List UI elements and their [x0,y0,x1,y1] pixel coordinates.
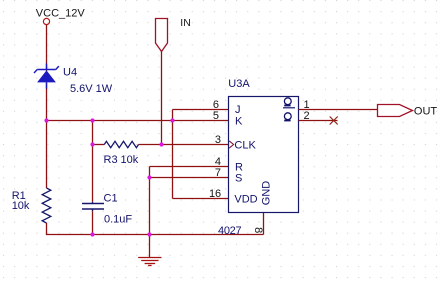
svg-text:OUT: OUT [414,105,438,117]
wire Q-bar pin 2 [299,120,338,122]
wire C1 to rail [92,211,94,234]
svg-text:GND: GND [260,181,272,206]
overbar of Q-bar [283,107,295,109]
capacitor C1 [82,202,104,212]
svg-text:CLK: CLK [234,139,256,151]
svg-text:8: 8 [252,227,264,233]
wire R3 right lead [139,144,162,146]
wire IN vertical [161,52,163,145]
svg-text:VDD: VDD [234,194,257,206]
resistor R3 [104,141,138,147]
svg-text:U3A: U3A [228,78,250,90]
svg-text:5: 5 [213,110,219,122]
power symbol VCC_12V circle [43,18,49,24]
junction R-S tie [147,175,151,179]
svg-text:4027: 4027 [218,225,241,237]
wire J-K-VDD vertical [172,110,174,199]
svg-text:7: 7 [215,167,221,179]
wire ground rail [46,234,264,236]
wire node A down to R1 [46,121,48,189]
wire VDD pin 16 [173,198,229,200]
svg-text:3: 3 [215,134,221,146]
svg-text:5.6V 1W: 5.6V 1W [70,83,113,95]
svg-text:K: K [235,115,243,127]
clock marker [229,141,233,148]
svg-text:J: J [235,104,241,116]
no-connect X on pin 2 [330,117,338,125]
junction ground rail [147,232,151,236]
zener diode U4 symbol [34,64,59,89]
svg-text:IN: IN [180,17,191,29]
wire Q pin 1 to OUT [299,109,378,111]
svg-text:10k: 10k [121,154,139,166]
port IN [156,19,168,52]
wire R3 left lead [93,144,105,146]
svg-text:S: S [235,173,242,185]
pin name Q-bar rotated [284,98,291,106]
wire GND pin 8 [263,213,265,235]
wire K net horizontal [47,120,229,122]
wire CLK net [162,144,230,146]
wire R pin 4 [150,166,229,168]
junction C1 top [90,118,94,122]
wire zener to node A [46,82,48,120]
wire C1 branch upper [92,121,94,202]
junction node A [44,118,48,122]
wire S pin 7 [150,177,229,179]
wire R1 bottom [46,223,48,235]
pin name Q rotated [284,113,291,121]
junction R3 left [90,142,94,146]
svg-text:U4: U4 [63,67,77,79]
svg-text:R3: R3 [104,154,118,166]
junction J-K tie [170,118,174,122]
svg-text:10k: 10k [12,200,30,212]
svg-text:VCC_12V: VCC_12V [36,8,86,20]
wire J pin 6 [173,109,229,111]
ground symbol [138,258,161,266]
IC U3A body (4027 JK flip-flop) [229,97,299,213]
wire VCC to zener [46,25,48,71]
resistor R1 [42,188,51,223]
junction IN-CLK-R3 [159,142,163,146]
junction C1 rail [90,232,94,236]
svg-text:16: 16 [209,188,221,200]
svg-text:C1: C1 [104,193,118,205]
svg-text:0.1uF: 0.1uF [104,214,132,226]
port OUT [378,105,413,117]
wire R-S to ground [149,167,151,258]
